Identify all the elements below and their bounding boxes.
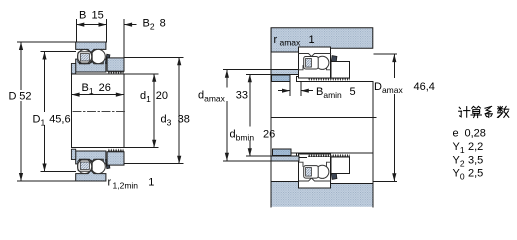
bottom bearing ball right: [91, 159, 105, 173]
svg-text:1: 1: [309, 34, 315, 46]
top bearing cage: [78, 52, 92, 63]
dim d3 arrow down: [177, 156, 181, 164]
dim d1 arrow down: [152, 140, 156, 148]
svg-text:e: e: [453, 128, 459, 140]
dim d_amax arrow down: [225, 153, 229, 161]
housing bottom block: [271, 181, 373, 207]
bottom sleeve tip: [71, 149, 75, 159]
bottom lock washer tab: [106, 159, 110, 168]
svg-text:46,4: 46,4: [414, 81, 435, 93]
dim D1 arrow up: [42, 52, 46, 60]
dim D_amax extension top: [374, 53, 396, 55]
dim D1 extension line top: [41, 51, 76, 53]
svg-text:1,2min: 1,2min: [113, 181, 139, 191]
dim d1 extension line top: [124, 73, 158, 75]
housing top block: [271, 28, 373, 52]
dim B_amin extension left: [289, 82, 291, 96]
right bottom bearing inner race line: [299, 162, 331, 166]
dim D line: [20, 42, 22, 181]
svg-text:Y2: Y2: [453, 154, 465, 168]
dim B2 arrow tail: [124, 24, 136, 26]
right bottom bearing outline: [299, 154, 331, 188]
housing spacer box bottom: [271, 161, 298, 182]
dim d_amax extension top: [224, 69, 272, 71]
svg-text:dbmin: dbmin: [230, 129, 255, 143]
char 计: [459, 107, 460, 108]
svg-text:33: 33: [236, 90, 248, 102]
char 算: [472, 106, 476, 108]
svg-text:D: D: [9, 91, 17, 103]
svg-text:Y0: Y0: [453, 168, 465, 182]
shaft bottom surface: [289, 152, 373, 154]
dim D_amax arrow up: [392, 54, 396, 62]
dim d_bmin arrow down: [248, 148, 252, 156]
right top bearing outline: [299, 47, 331, 78]
dim d3 extension line top: [124, 56, 183, 58]
dim d_amax extension bottom: [224, 160, 272, 162]
svg-text:2,2: 2,2: [468, 141, 483, 153]
dim d3 extension line bottom: [124, 163, 183, 165]
dim d1 arrow up: [152, 74, 156, 82]
svg-text:38: 38: [178, 113, 190, 125]
dim B arrow left: [76, 23, 84, 27]
right top bearing outer race line: [299, 54, 331, 57]
right top sleeve thread: [308, 78, 350, 81]
dim B arrow right: [99, 23, 107, 27]
abutment ring strip bottom: [271, 156, 299, 161]
svg-text:26: 26: [263, 129, 275, 141]
shaft axis line: [272, 117, 377, 119]
top bearing inner ring: [76, 59, 106, 72]
svg-text:amax: amax: [280, 38, 302, 48]
right bottom bearing outer race line: [299, 178, 331, 181]
adapter sleeve body (B1 box): [71, 74, 124, 148]
dim d1 line: [153, 74, 155, 148]
dim B extension line right: [106, 20, 108, 43]
bottom bearing inner ring: [76, 151, 106, 164]
right top bearing cage: [304, 57, 319, 70]
shaft end face: [372, 82, 374, 184]
dim B2 extension line: [123, 20, 125, 58]
svg-text:Damax: Damax: [374, 81, 403, 95]
char 数: [499, 106, 501, 111]
dim B_amin arrow right: [301, 89, 309, 93]
right top bearing inner race line: [299, 66, 331, 70]
right top lock nut: [331, 61, 349, 77]
dim D extension line bottom: [18, 180, 76, 182]
dim B line: [76, 24, 106, 26]
abutment ring strip top: [271, 69, 299, 74]
right bottom sleeve thread: [308, 154, 350, 157]
top sleeve tip: [71, 64, 75, 74]
centerline axis: [73, 111, 126, 113]
svg-text:52: 52: [19, 91, 31, 103]
bottom lock nut thread: [108, 149, 124, 152]
svg-text:D145,6: D145,6: [33, 113, 71, 127]
dim B1 arrow right: [116, 93, 124, 97]
right bottom bearing ball: [316, 165, 329, 178]
top bearing ball left: [78, 50, 92, 64]
bottom bearing cage: [78, 160, 92, 171]
dim D1 arrow down: [42, 164, 46, 172]
bottom bearing ball left: [78, 159, 92, 173]
svg-text:1: 1: [148, 177, 154, 189]
table title 计算系数 (drawn as vector strokes): [459, 106, 509, 117]
right bottom bearing cage: [304, 166, 319, 179]
dim d3 arrow up: [177, 57, 181, 65]
dim D_amax line upper: [393, 54, 395, 77]
svg-text:15: 15: [92, 10, 104, 22]
dim D1 extension line bottom: [41, 171, 76, 173]
housing bore left edge line: [270, 28, 272, 207]
right bottom bearing cage section: [306, 168, 312, 177]
svg-text:B: B: [79, 10, 86, 22]
dim B1 arrow left: [72, 93, 80, 97]
label D 52 background: [7, 90, 32, 101]
dim D_amax extension bottom: [373, 180, 396, 182]
dim d_amax line: [226, 70, 228, 87]
top lock washer tab: [106, 54, 110, 63]
svg-text:r: r: [274, 34, 278, 46]
housing spacer box top: [271, 52, 298, 69]
dim B1 line: [71, 94, 124, 96]
bottom bearing cage section: [80, 162, 89, 169]
bottom bearing outer ring: [76, 170, 106, 181]
svg-text:20: 20: [156, 90, 168, 102]
dim d_bmin extension bottom: [247, 155, 272, 157]
shaft top surface: [296, 81, 373, 83]
svg-text:0,28: 0,28: [465, 128, 486, 140]
dim B_amin extension right: [300, 82, 302, 96]
dim D_amax line lower: [393, 95, 395, 182]
svg-text:2,5: 2,5: [468, 168, 483, 180]
right bottom lock nut: [331, 157, 349, 173]
right top bearing ball: [316, 56, 329, 69]
svg-text:B28: B28: [143, 18, 166, 32]
svg-text:Bamin: Bamin: [316, 86, 342, 100]
right top lock washer tab: [331, 56, 337, 67]
svg-text:3,5: 3,5: [468, 154, 483, 166]
top lock nut thread: [108, 71, 124, 74]
top bearing cage section: [80, 54, 89, 61]
right top bearing cage section: [306, 59, 312, 68]
svg-text:d3: d3: [161, 113, 172, 127]
abutment collar top: [272, 75, 290, 82]
dim D_amax arrow down: [392, 173, 396, 181]
dim d3 line: [178, 57, 180, 163]
svg-text:Y1: Y1: [453, 141, 465, 155]
sleeve end step top: [296, 77, 300, 82]
dim D extension line top: [18, 41, 76, 43]
dim d1 extension line bottom: [124, 147, 158, 149]
char 系: [485, 106, 492, 108]
dim d_bmin line: [249, 74, 251, 126]
label D1 45,6 background: [32, 112, 73, 125]
top bearing outer ring: [76, 42, 106, 53]
dim D arrow down: [19, 173, 23, 181]
abutment collar bottom: [273, 149, 291, 156]
dim B_amin arrow left tail: [278, 90, 290, 92]
svg-text:5: 5: [350, 86, 356, 98]
dim B_amin arrow left: [282, 89, 290, 93]
dim D1 line: [44, 52, 46, 172]
svg-text:d1: d1: [140, 90, 151, 104]
dim B extension line left: [75, 20, 77, 43]
dim D arrow up: [19, 42, 23, 50]
dim d_bmin arrow up: [248, 74, 252, 82]
dim d_bmin extension top: [247, 73, 272, 75]
dim d_amax arrow up: [225, 70, 229, 78]
top lock nut: [107, 58, 124, 71]
dim B_amin arrow right tail: [301, 90, 313, 92]
svg-text:r: r: [108, 177, 112, 189]
right bottom lock washer tab: [331, 169, 337, 180]
bottom lock nut: [107, 152, 124, 165]
dim B2 arrow left: [124, 23, 132, 27]
svg-text:damax: damax: [198, 90, 226, 104]
sleeve end step bottom: [296, 153, 306, 157]
top bearing ball right: [91, 49, 105, 63]
